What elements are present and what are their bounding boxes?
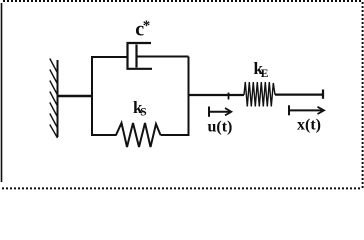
spring kE — [244, 82, 275, 107]
wire spring kE to end with terminal tick — [275, 93, 323, 95]
wire top branch to damper — [91, 56, 128, 58]
svg-text:E: E — [261, 68, 269, 80]
label kS — [133, 98, 147, 119]
wire box to spring kE with node tick u — [189, 94, 245, 96]
wire bottom branch left segment — [91, 134, 117, 136]
label kE — [254, 59, 269, 80]
damper C* piston — [135, 45, 137, 68]
figure border bottom (dotted) — [2, 187, 361, 189]
svg-text:S: S — [140, 107, 146, 119]
svg-text:u(t): u(t) — [208, 119, 233, 136]
ground (fixed wall) — [50, 59, 58, 139]
arrow x(t) — [289, 105, 324, 115]
label c* — [135, 18, 150, 41]
wire parallel-box left branch — [91, 57, 93, 135]
svg-text:*: * — [143, 18, 151, 34]
figure border top (dotted) — [3, 0, 363, 2]
figure border right (dotted) — [362, 2, 364, 188]
wire wall to parallel box — [58, 95, 93, 97]
damper C* cylinder — [128, 43, 153, 69]
svg-text:x(t): x(t) — [297, 117, 321, 134]
arrow u(t) — [209, 107, 231, 117]
wire parallel-box right branch — [188, 57, 190, 136]
wire damper piston rod to right branch — [137, 56, 189, 58]
wire bottom branch right segment — [161, 134, 190, 136]
terminal tick at x(t) — [322, 90, 324, 99]
node tick at u(t) — [228, 93, 230, 100]
spring kS — [116, 123, 161, 147]
figure border left (solid) — [1, 3, 3, 182]
